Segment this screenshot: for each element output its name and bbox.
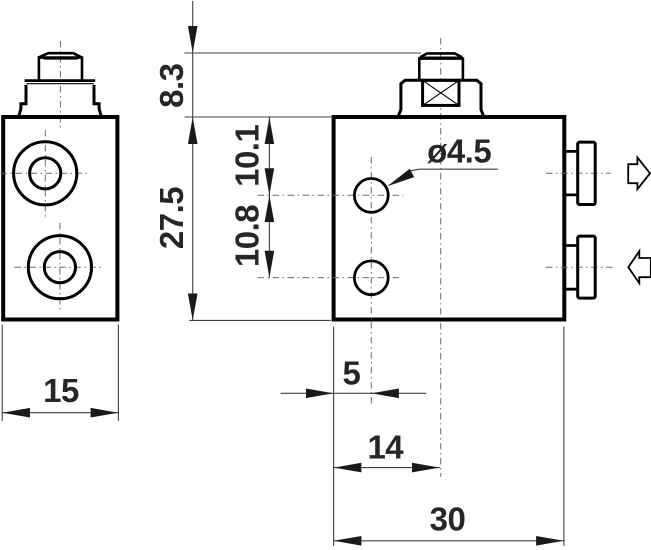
dimension line 10.1 / 10.8 vertical bbox=[268, 117, 270, 278]
left view: lower port inner circle bbox=[44, 252, 75, 283]
right view: upper hole centerline horizontal bbox=[258, 194, 404, 196]
arrow left (14) bbox=[334, 463, 362, 473]
left view: solenoid body with step and flare bbox=[19, 85, 101, 116]
right view: flange with chamfered corners and flare bbox=[398, 80, 483, 116]
left view: upper port centerline vertical bbox=[44, 130, 46, 217]
right view: upper port cap bbox=[578, 142, 596, 204]
flow arrow in (left-pointing block arrow) bbox=[628, 251, 651, 283]
extension line: left view right edge (15) bbox=[117, 325, 119, 421]
right view: hole column centerline vertical bbox=[370, 157, 372, 404]
right view: hex nut outer rect bbox=[419, 59, 463, 80]
left view: lower port centerline horizontal bbox=[14, 266, 103, 268]
arrow right (15) bbox=[91, 408, 119, 418]
left view: main body rectangle bbox=[3, 117, 117, 320]
dimension line 30 bbox=[334, 540, 564, 542]
svg-text:14: 14 bbox=[367, 429, 404, 466]
arrow up at y=117 (10.1) bbox=[265, 117, 275, 144]
arrow left (15) bbox=[2, 408, 30, 418]
right view: lower port cap bbox=[578, 236, 596, 298]
leader arrowhead bbox=[387, 169, 414, 187]
arrow down at y=320 bbox=[188, 294, 198, 321]
right view: hex nut cap (top line and thick chamfers) bbox=[420, 53, 462, 57]
svg-text:5: 5 bbox=[342, 354, 360, 391]
svg-text:8.3: 8.3 bbox=[153, 63, 190, 108]
arrow down at y=195 (10.1) bbox=[265, 168, 275, 195]
left view: hex nut cap (top line and thick chamfers) bbox=[39, 53, 82, 57]
left view: hex nut outer rect bbox=[39, 58, 82, 80]
arrow toward 371.3 (5) bbox=[372, 389, 399, 399]
right view: main body rectangle bbox=[334, 117, 565, 320]
left view: nut centerline bbox=[59, 41, 61, 128]
left view: flange thick top line bbox=[25, 79, 96, 82]
arrow down at y=277.5 (10.8) bbox=[265, 251, 275, 278]
leader ø4.5 bbox=[410, 169, 498, 171]
extension line: left view left edge (15) bbox=[1, 325, 3, 421]
flow arrow out (right-pointing block arrow) bbox=[628, 157, 650, 189]
extension line: right body right edge (30) bbox=[563, 327, 565, 546]
left view: lower port outer circle bbox=[28, 236, 91, 299]
right view: connector X-box bbox=[423, 80, 459, 105]
extension line: top of nut (8.3 upper) bbox=[184, 52, 421, 54]
arrow up at y=195 (10.8) bbox=[265, 195, 275, 222]
svg-text:30: 30 bbox=[430, 501, 466, 538]
extension line: bottom of body bbox=[189, 319, 330, 321]
dimension line 8.3 / 27.5 vertical bbox=[192, 1, 194, 320]
svg-text:15: 15 bbox=[43, 372, 79, 409]
right view: nut centerline vertical bbox=[440, 38, 442, 477]
extension line: top of body bbox=[185, 116, 334, 118]
right view: upper hole ø4.5 bbox=[354, 179, 388, 213]
right view: lower hole ø4.5 bbox=[354, 261, 388, 295]
dimension line 15 bbox=[2, 412, 118, 414]
right view: hex nut face thin line bbox=[424, 56, 459, 58]
left view: hex nut face thin line bbox=[44, 58, 78, 60]
right view: lower port neck bbox=[566, 246, 577, 290]
right view: X-box diagonal 2 bbox=[423, 80, 459, 105]
arrow right (14) bbox=[412, 463, 440, 473]
arrow down at y=53 bbox=[188, 26, 198, 53]
svg-text:27.5: 27.5 bbox=[153, 187, 190, 249]
dimension line 5 bbox=[281, 392, 427, 394]
left view: upper port outer circle bbox=[14, 142, 77, 205]
left view: upper port inner circle bbox=[30, 158, 61, 189]
left view: upper port centerline horizontal bbox=[1, 172, 90, 174]
svg-text:ø4.5: ø4.5 bbox=[427, 133, 491, 170]
right view: upper port centerline bbox=[546, 172, 611, 174]
dimension line 14 bbox=[334, 467, 440, 469]
svg-text:10.8: 10.8 bbox=[229, 205, 266, 267]
right view: X-box diagonal 1 bbox=[423, 80, 459, 105]
left view: flange thin bottom line bbox=[27, 83, 94, 85]
extension line: right body left edge (5/14/30) bbox=[333, 327, 335, 546]
left view: lower port centerline vertical bbox=[59, 223, 61, 312]
right view: lower hole centerline horizontal bbox=[258, 277, 403, 279]
arrow toward 333.6 (5) bbox=[306, 389, 333, 399]
arrow right (30) bbox=[536, 536, 564, 546]
svg-text:10.1: 10.1 bbox=[229, 125, 266, 187]
right view: lower port centerline bbox=[546, 266, 613, 268]
right view: upper port neck bbox=[566, 151, 577, 195]
arrow up at y=117 bbox=[188, 117, 198, 144]
arrow left (30) bbox=[334, 536, 362, 546]
